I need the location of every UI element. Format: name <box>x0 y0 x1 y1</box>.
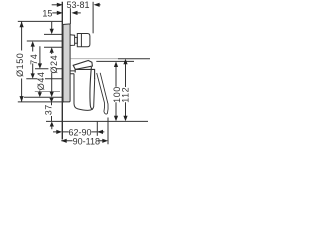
svg-text:112: 112 <box>120 87 130 103</box>
dim O150 line <box>21 22 23 102</box>
svg-text:Ø44: Ø44 <box>36 72 46 91</box>
dim 37 line <box>51 102 53 129</box>
dim 53-81 <box>52 4 57 6</box>
wire extension line y47.6 <box>44 46 62 48</box>
arrow 62-90 left <box>56 130 62 134</box>
node lever grip <box>90 67 93 110</box>
arrow 37 top <box>49 98 53 102</box>
dim 112 line <box>125 64 127 117</box>
arrow 53-81 left <box>57 3 63 7</box>
wire extension line y41 <box>27 40 63 42</box>
arrow 100 bottom <box>114 116 118 122</box>
arrow 53-81 right <box>94 3 100 7</box>
wire extension line y68.8 <box>35 68 62 70</box>
wire extension line y78.7 <box>26 78 62 80</box>
wire extension line 100 top <box>96 60 134 62</box>
wire extension line right x107.4 <box>107 118 109 145</box>
wire extension line top 53-81 right <box>92 2 94 34</box>
wire baseline y121.4 <box>46 120 148 122</box>
dim 90-118 line <box>61 140 103 142</box>
arrow O24 bottom <box>50 92 54 97</box>
arrow 15 right <box>72 11 78 15</box>
arrow 112 bottom <box>123 116 127 122</box>
wire hub flange <box>80 34 82 47</box>
dim O24 line <box>51 22 53 92</box>
wire extension line 112 top <box>118 58 150 60</box>
svg-text:37: 37 <box>44 104 54 115</box>
arrow 37 bottom <box>50 122 54 127</box>
node lever head <box>73 61 92 70</box>
svg-text:Ø24: Ø24 <box>49 55 59 74</box>
wire extension line y34.4 <box>44 33 62 35</box>
arrow O150 bottom <box>20 96 24 102</box>
technical drawing: concealed bath mixer side view with dimensions <box>0 0 150 150</box>
arrow 100 top <box>114 62 118 68</box>
node sleeve neck <box>75 37 78 43</box>
arrow O24 mid <box>50 47 54 53</box>
wire lever swing phantom <box>97 73 108 114</box>
wire extension line y97.2 <box>24 96 62 98</box>
wire grey phantom extension y58.6 <box>71 58 119 60</box>
node cartridge sleeve <box>70 35 75 46</box>
arrow 74 top <box>31 41 35 47</box>
node handle hub <box>77 34 90 47</box>
dim O44 line <box>39 46 41 92</box>
wire extension line right x97.3 <box>96 122 98 136</box>
arrow 15 left <box>57 11 63 15</box>
svg-text:90-118: 90-118 <box>73 136 100 146</box>
node escutcheon plate (side) <box>63 24 70 102</box>
dim 62-90 line <box>53 131 104 133</box>
arrow O44 top <box>38 63 42 68</box>
svg-text:74: 74 <box>29 54 39 65</box>
arrow 62-90 right <box>97 130 103 134</box>
arrow 112 top <box>123 59 127 65</box>
node mixer body <box>74 74 95 111</box>
dim 15 leader <box>52 12 57 14</box>
dim 74 line <box>32 47 34 74</box>
wire extension line y21.4 <box>18 20 63 22</box>
arrow 90-118 left <box>61 139 67 143</box>
svg-text:53-81: 53-81 <box>66 0 89 10</box>
dimension labels <box>42 0 100 146</box>
arrow O24 top <box>50 29 54 35</box>
wire plate step <box>70 71 75 74</box>
wire extension line y91.5 <box>35 91 60 93</box>
arrow O150 top <box>20 22 24 28</box>
svg-text:Ø150: Ø150 <box>15 53 25 77</box>
arrow O44 bottom <box>38 92 42 97</box>
wire wall line <box>61 2 63 140</box>
wire extension line y101.9 <box>18 101 64 103</box>
node lever base block <box>75 69 94 79</box>
svg-text:15: 15 <box>42 8 52 18</box>
wire extension line 15 right <box>69 8 71 24</box>
dim 100 line <box>115 66 117 116</box>
arrow 90-118 right <box>102 139 108 143</box>
arrow 74 bottom <box>31 73 35 78</box>
